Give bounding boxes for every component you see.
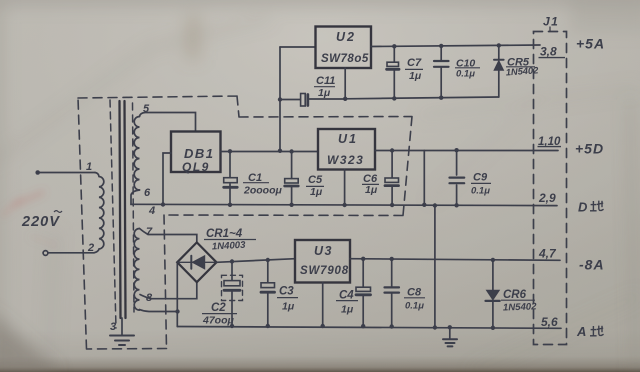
wire U3 output -8A rail bbox=[350, 259, 560, 261]
ground A symbol bbox=[443, 339, 457, 346]
capacitor C5 bbox=[291, 152, 293, 205]
node C4 top bbox=[361, 257, 365, 261]
capacitor C1 bbox=[229, 152, 231, 205]
wire A ground rail bbox=[177, 327, 561, 329]
node C6 top bbox=[390, 148, 394, 152]
transformer secondary winding 7-8 bbox=[134, 229, 139, 311]
node C2 bottom bbox=[230, 324, 234, 328]
node tie bottom bbox=[422, 203, 426, 207]
node C5 bottom bbox=[289, 203, 293, 207]
capacitor C2 bbox=[231, 262, 233, 327]
node C7 bottom bbox=[392, 96, 396, 100]
capacitor C3 bbox=[267, 260, 269, 326]
node CR6 top bbox=[491, 258, 495, 262]
wire +5D to D rail tie bbox=[423, 151, 425, 205]
wire DB1 left pin bbox=[163, 153, 171, 205]
node C5 top bbox=[289, 149, 293, 153]
node C9 top bbox=[454, 148, 458, 152]
capacitor C9 bbox=[456, 151, 458, 206]
capacitor C8 bbox=[391, 259, 393, 327]
capacitor C4 bbox=[362, 259, 364, 326]
wire U2 input feed bbox=[279, 47, 281, 151]
220V source terminal top bbox=[35, 170, 40, 175]
node DB1 left pin on D rail bbox=[161, 202, 165, 206]
node winding-end tie bbox=[175, 309, 179, 313]
transformer shield dashed left bbox=[110, 100, 116, 328]
node U2 feed bottom bbox=[278, 149, 282, 153]
bridge internal wire bbox=[177, 261, 216, 263]
wire 220V top to primary bbox=[38, 172, 95, 174]
wire DB1 output raw rail bbox=[221, 151, 319, 153]
transformer core line 2 bbox=[125, 101, 126, 318]
node C3 top bbox=[266, 258, 270, 262]
node C9 bottom bbox=[454, 203, 458, 207]
regulator U2 box bbox=[316, 27, 372, 69]
capacitor C7 bbox=[393, 46, 395, 98]
wire U3 ground pin bbox=[322, 283, 324, 327]
bridge CR1-4 diamond bbox=[177, 242, 216, 282]
diode CR5 bbox=[498, 45, 500, 97]
ground core stub bbox=[121, 318, 123, 335]
bridge rectifier DB1 box bbox=[171, 132, 221, 173]
node C4 bottom bbox=[361, 324, 365, 328]
node CR5 top bbox=[497, 43, 501, 47]
node C11 tee bbox=[278, 97, 282, 101]
capacitor C11 bbox=[280, 98, 345, 101]
wire U2 section ground rail bbox=[345, 97, 499, 99]
wire winding end to ground tie bbox=[140, 310, 178, 312]
node U2 ground bbox=[343, 97, 347, 101]
wire U1 output +5D rail bbox=[375, 150, 558, 152]
faint red pencil marks near 220V bbox=[2, 192, 58, 246]
wire tap8 to bridge bottom bbox=[140, 282, 197, 299]
capacitor C10 bbox=[440, 46, 442, 98]
transformer core line 1 bbox=[120, 101, 121, 318]
dashed transformer enclosure bbox=[78, 96, 412, 349]
node C7 top bbox=[392, 44, 396, 48]
diode CR6 bbox=[492, 260, 494, 328]
220V source terminal bottom bbox=[43, 251, 48, 256]
ground core symbol bbox=[110, 336, 134, 346]
node C8 bottom bbox=[390, 324, 394, 328]
node C3 bottom bbox=[266, 324, 270, 328]
wire U1 ground pin bbox=[344, 170, 346, 206]
transformer shield dashed right bbox=[133, 103, 135, 312]
wire 220V bottom to primary bbox=[48, 252, 94, 254]
J1 label tick bbox=[549, 27, 551, 32]
ground A symbol stub bbox=[449, 327, 451, 338]
node ground A bbox=[448, 325, 452, 329]
node D-A tie bottom bbox=[433, 325, 437, 329]
node C8 top bbox=[390, 257, 394, 261]
wire tap6 to D rail bbox=[131, 190, 140, 205]
wire U2 output +5A rail bbox=[371, 45, 540, 47]
bridge internal diode bbox=[190, 256, 192, 269]
node C2 top bbox=[230, 259, 234, 263]
wire U2 input horizontal bbox=[280, 46, 316, 48]
wire tap7 to bridge top bbox=[140, 229, 197, 243]
node C6 bottom bbox=[390, 203, 394, 207]
connector J1 dashed box bbox=[534, 32, 567, 345]
wire tap5 to DB1 top bbox=[140, 113, 196, 132]
regulator U3 box bbox=[295, 240, 350, 283]
wire D-A ground tie bbox=[434, 206, 436, 328]
transformer T primary winding bbox=[94, 173, 104, 253]
node U1 ground on D rail bbox=[342, 203, 346, 207]
wire bridge output to U3 bbox=[217, 259, 296, 263]
wire bridge left vertex down to A rail bbox=[176, 262, 178, 326]
dashed box around C2 bbox=[222, 275, 243, 300]
node C10 top bbox=[439, 44, 443, 48]
wire U2 ground pin bbox=[344, 68, 346, 99]
capacitor C6 bbox=[391, 151, 393, 206]
regulator U1 box bbox=[318, 129, 375, 170]
node D-A tie top bbox=[433, 203, 437, 207]
transformer secondary winding 5-6 bbox=[134, 117, 139, 191]
node CR6 bottom bbox=[491, 326, 495, 330]
node U3 ground bbox=[321, 324, 325, 328]
node C1 bottom bbox=[228, 203, 232, 207]
wire D ground rail bbox=[131, 204, 557, 205]
node C10 bottom bbox=[439, 96, 443, 100]
node C1 top bbox=[228, 149, 232, 153]
